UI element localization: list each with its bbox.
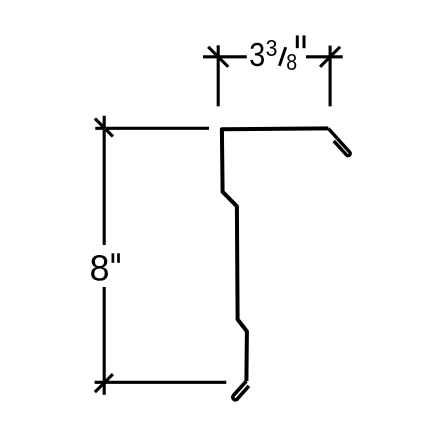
profile: bottom hemmed kick-out edge [233, 381, 249, 400]
tick: left dimension top tick [95, 119, 113, 137]
label: top dim quote mark bar 1 [296, 35, 299, 48]
dimension line: top width dim, left segment [203, 55, 247, 58]
extension line: height dim bottom horizontal [95, 381, 227, 384]
profile: metal trim cross-section body [222, 128, 328, 381]
extension line: top dim left vertical [217, 45, 220, 106]
tick: top dimension left tick [208, 47, 228, 67]
tick: top dimension right tick [320, 47, 340, 67]
extension line: height dim top horizontal [95, 127, 209, 130]
profile: top right hemmed drip edge [328, 128, 350, 155]
dimension line: left height dim, upper segment [103, 116, 106, 245]
tick: left dimension bottom tick [95, 374, 113, 392]
dimension line: top width dim, right segment [306, 55, 343, 58]
label: top dim fraction slash [279, 47, 285, 66]
svg-text:8: 8 [286, 49, 297, 75]
label: 8 inch quote mark bar 1 [112, 253, 115, 262]
svg-text:8: 8 [90, 248, 110, 289]
label: top dim quote mark bar 2 [303, 35, 306, 48]
dimension line: left height dim, lower segment [103, 287, 106, 395]
label: 8 inch quote mark bar 2 [117, 253, 120, 262]
svg-text:3: 3 [266, 35, 278, 61]
svg-text:3: 3 [249, 36, 265, 73]
extension line: top dim right vertical [329, 46, 332, 107]
